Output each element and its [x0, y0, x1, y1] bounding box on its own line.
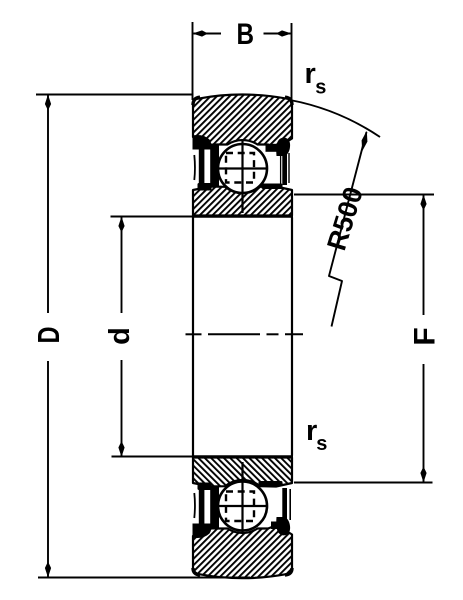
svg-text:D: D	[31, 327, 66, 344]
ball upper vertical axis line	[241, 141, 243, 214]
fillet corner bottom-left of outer ring	[193, 568, 200, 575]
dimension F: extension line top	[294, 194, 434, 196]
dimension F: extension line bottom	[294, 482, 433, 484]
fillet corner top-left of outer ring	[193, 97, 200, 105]
svg-text:B: B	[237, 18, 255, 51]
ball upper section	[218, 144, 267, 193]
ball lower vertical axis line	[241, 462, 243, 533]
dimension D: extension line bottom	[38, 577, 250, 579]
inner ring lower section (hatched)	[193, 458, 292, 487]
seal upper-right: outer face line	[288, 153, 290, 183]
fillet corner top-right of outer ring	[285, 97, 292, 105]
svg-text:d: d	[104, 327, 136, 345]
ball lower horizontal axis line	[218, 505, 269, 507]
label F	[408, 327, 441, 345]
seal lower-left: outer face line	[193, 493, 196, 518]
inner ring face line right (between sections)	[291, 218, 293, 456]
label R500 (rotated along leader)	[321, 183, 369, 253]
seal upper-left: anchor blob	[193, 135, 212, 150]
seal lower-left: foot on inner ring	[198, 483, 212, 491]
outer ring lower section (hatched, crowned OD)	[193, 526, 292, 579]
dimension d: line with arrows	[118, 217, 124, 458]
dimension D: extension line top	[36, 94, 194, 96]
label d	[104, 327, 136, 345]
cage pocket dashed square upper	[226, 153, 254, 183]
leader line R500 with zigzag break	[329, 132, 367, 327]
fillet corner bottom-right of outer ring	[285, 568, 292, 575]
label D	[31, 327, 66, 344]
seal upper-right: foot on inner ring	[262, 184, 283, 190]
bore line lower section	[192, 455, 293, 458]
inner ring upper section (hatched)	[193, 187, 292, 216]
seal upper-left: outer face line	[193, 155, 196, 180]
seal lower-right: outer face line	[289, 489, 291, 520]
seal lower-left: lip bar	[199, 488, 205, 524]
inner ring face line left (between sections)	[192, 218, 194, 456]
seal upper-left: lip bar	[199, 149, 205, 185]
seal upper-right: thin lip line	[280, 152, 282, 184]
dimension D: line with arrows	[45, 95, 51, 578]
seal upper-left: inner mass	[210, 144, 219, 188]
dimension B: extension line right	[291, 23, 293, 100]
seal upper-left: foot on inner ring	[198, 183, 212, 191]
seal upper-right: anchor hook	[266, 138, 291, 156]
seal upper-right: lip bar	[282, 150, 287, 185]
seal lower-left: inner mass	[210, 486, 219, 530]
leader arrow to crown arc	[362, 131, 368, 152]
seal lower-right: lip bar	[282, 488, 287, 522]
bore line upper section	[192, 215, 293, 218]
centerline (bearing axis, dashed)	[186, 333, 304, 335]
label r_s top right	[305, 58, 327, 99]
dimension F: line with arrows	[420, 195, 426, 483]
dimension B: right arrow	[264, 30, 292, 36]
ball lower section	[218, 482, 267, 531]
dimension B: left arrow	[193, 30, 222, 36]
seal lower-right: foot on inner ring	[259, 481, 283, 486]
svg-text:F: F	[408, 327, 441, 345]
dimension d: extension line bottom	[112, 456, 194, 458]
seal lower-right: anchor hook	[271, 517, 290, 535]
seal lower-left: anchor blob	[193, 524, 212, 539]
label r_s bottom right	[306, 415, 327, 455]
dimension B: extension line left	[192, 22, 194, 100]
svg-text:s: s	[316, 433, 327, 455]
outer ring upper section (hatched, crowned OD)	[193, 95, 292, 148]
ball upper horizontal axis line	[218, 167, 269, 169]
svg-text:r: r	[305, 58, 316, 90]
label B	[237, 18, 255, 51]
svg-text:s: s	[315, 77, 326, 99]
crown radius arc extension to the right	[290, 100, 380, 137]
dimension d: extension line top	[111, 216, 194, 218]
cage pocket dashed square lower	[226, 492, 254, 522]
